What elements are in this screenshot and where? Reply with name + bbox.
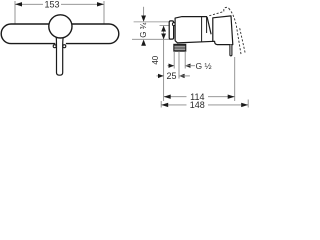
dimension G 3/4 lower extension line xyxy=(132,38,171,40)
dashed swung handle top edge xyxy=(209,12,224,16)
main vertical extension line xyxy=(163,26,165,102)
lever neck left line xyxy=(55,38,57,45)
dimension 114 arrow left xyxy=(164,95,171,99)
cartridge circle front view xyxy=(49,15,72,38)
svg-text:G ¾: G ¾ xyxy=(139,22,148,37)
dimension G 1/2 left stub xyxy=(168,65,175,67)
svg-text:40: 40 xyxy=(151,55,160,64)
dimension G 3/4 upper extension line xyxy=(134,21,171,23)
threaded outlet xyxy=(174,44,186,51)
dimension 148 arrow left xyxy=(161,103,168,107)
dimension 25 right stub xyxy=(179,75,190,77)
dimension 153 extension line left xyxy=(14,1,16,24)
outlet extension line centre xyxy=(178,51,180,78)
lever left loop xyxy=(53,45,56,48)
lever stem and U bottom xyxy=(57,45,63,76)
dashed swung handle peak xyxy=(224,7,230,11)
body ring line 2 xyxy=(206,17,208,33)
handle block side view xyxy=(213,16,233,45)
outlet extension line right xyxy=(184,51,186,68)
body ring line 1 xyxy=(201,17,203,42)
handle grip bar solid xyxy=(230,45,232,56)
dimension 153 arrow left xyxy=(15,2,22,6)
handle extension line xyxy=(234,57,236,101)
outlet extension line left xyxy=(173,51,175,68)
svg-text:G ½: G ½ xyxy=(196,61,212,71)
dimension G 3/4 lower arrow (up) xyxy=(141,40,146,46)
dimension 153 extension line right xyxy=(103,1,105,24)
dashed swung grip inner edge xyxy=(229,9,241,55)
outlet thread line 1 xyxy=(174,45,185,47)
outlet thread line 2 xyxy=(174,47,185,49)
dimension G 1/2 right arrow xyxy=(185,64,191,68)
dimension G 3/4 upper arrow (down) xyxy=(141,16,146,22)
dimension 40 lower arrow (down) xyxy=(161,34,166,40)
dimension 148 line left xyxy=(161,104,186,106)
dimension 148 arrow right xyxy=(241,103,248,107)
dimension 114 arrow right xyxy=(228,95,235,99)
lever neck right line xyxy=(62,38,64,45)
outlet thread line 3 xyxy=(174,49,185,51)
dimension 148 line right xyxy=(208,104,248,106)
dimension 25 right arrow xyxy=(179,74,185,78)
dimension 25 left stub xyxy=(157,75,164,77)
dimension 153 line right segment xyxy=(61,3,104,5)
extension line 148 left xyxy=(160,101,162,108)
svg-text:148: 148 xyxy=(190,100,205,110)
dimension 114 line left xyxy=(164,96,187,98)
body outline side view xyxy=(175,17,215,43)
union swivel circle xyxy=(172,23,175,26)
dashed swung grip outer edge xyxy=(240,28,246,53)
union nut side view xyxy=(169,21,173,39)
extension line 148 right xyxy=(247,100,249,108)
dimension 114 line right xyxy=(208,96,235,98)
mixer body side view xyxy=(175,17,211,43)
svg-text:153: 153 xyxy=(44,0,59,10)
dimension 40 upper arrow (up) xyxy=(161,26,166,32)
side view: dimension G 3/4 vertical line xyxy=(143,7,145,18)
mixer body front view (capsule) xyxy=(1,24,119,44)
dimension 25 left arrow xyxy=(158,74,164,78)
gap in body bottom edge for lever xyxy=(55,42,66,45)
dimension G 1/2 right stub xyxy=(185,65,195,67)
lever right loop xyxy=(63,45,66,48)
svg-text:25: 25 xyxy=(166,71,176,81)
tick at union centre xyxy=(160,25,170,27)
dimension 153 line left segment xyxy=(15,3,43,5)
dimension 153 arrow right xyxy=(97,2,104,6)
dimension G 1/2 left arrow xyxy=(169,64,175,68)
